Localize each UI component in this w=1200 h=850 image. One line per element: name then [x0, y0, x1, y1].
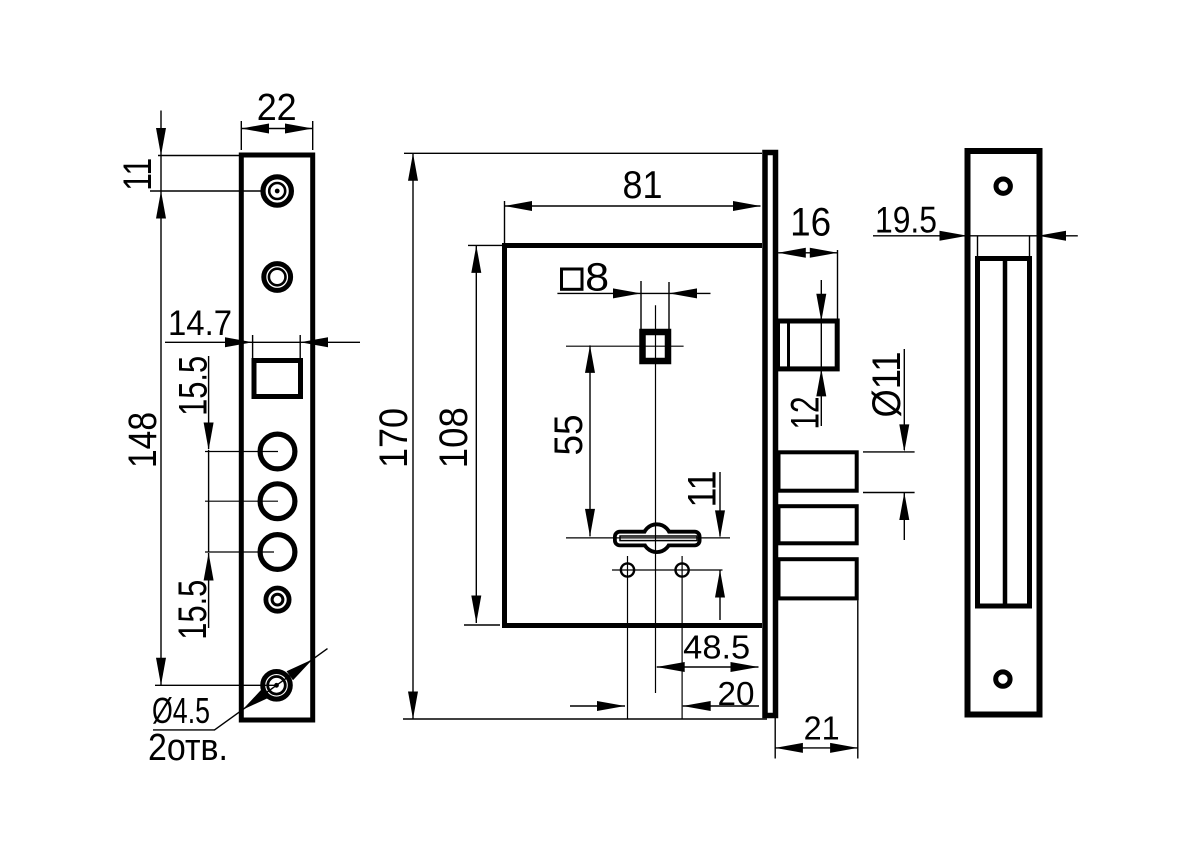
dim 15.5 lower arrow — [204, 553, 214, 581]
dim 21 extensions — [775, 600, 858, 758]
dim 81 line — [505, 205, 761, 207]
latch bolt top — [778, 321, 838, 369]
square hole — [254, 361, 301, 397]
dim 15.5 lower line — [208, 450, 210, 628]
dim 20 line — [570, 705, 759, 707]
dim 19.5 line — [873, 235, 1078, 237]
dim 22 arrows — [241, 124, 312, 134]
latch bolt collar — [787, 321, 790, 369]
dim 11 arrow top — [156, 128, 166, 156]
dim 108 arrows — [471, 245, 481, 623]
svg-text:19.5: 19.5 — [875, 199, 937, 240]
bolt circle 1 — [260, 434, 295, 469]
dim 11 mid arrows — [715, 510, 725, 597]
screw hole top (countersunk) — [263, 177, 291, 205]
dim 15.5 upper line — [208, 356, 210, 449]
dim 108 extensions — [464, 245, 502, 625]
vertical centerline through square and keyhole — [655, 305, 657, 693]
dim Ø11 line — [903, 349, 905, 540]
svg-text:22: 22 — [257, 87, 297, 129]
svg-text:14.7: 14.7 — [168, 304, 232, 343]
dim 14.7 line — [165, 341, 360, 343]
dim 21 line — [775, 747, 858, 749]
svg-text:Ø11: Ø11 — [865, 352, 909, 418]
dim 16 arrows — [778, 248, 837, 258]
case outline — [505, 246, 763, 626]
svg-text:108: 108 — [432, 407, 476, 468]
dim 11 mid line — [719, 472, 721, 620]
dim 48.5 arrows — [657, 662, 759, 672]
dim 22 line — [241, 128, 312, 130]
strike slot divider — [1003, 259, 1008, 607]
dimensions of middle view — [372, 153, 915, 758]
dim 55 line — [589, 345, 591, 536]
dim 16 extension — [837, 250, 839, 320]
dim 108 line — [475, 245, 477, 623]
dim 12 line — [820, 280, 822, 426]
dim 170 bottom extension — [403, 718, 767, 720]
keyhole outer — [617, 526, 698, 550]
dim 15.5 upper arrow — [204, 423, 214, 451]
dim 170 top extension — [404, 152, 762, 154]
dim 48.5 line — [657, 666, 759, 668]
screw hole bottom (countersunk) — [263, 672, 291, 700]
spindle square hole — [643, 332, 669, 361]
dim 170 line — [412, 153, 414, 719]
svg-text:148: 148 — [121, 412, 165, 468]
svg-text:20: 20 — [718, 675, 755, 712]
dim 14.7 extensions — [253, 335, 301, 358]
dim 22 extension lines — [241, 121, 312, 150]
square symbol of □8 — [562, 269, 583, 289]
strike plate outline — [968, 151, 1040, 715]
dim 81 left extension — [504, 201, 506, 243]
svg-text:48.5: 48.5 — [683, 629, 750, 666]
rivet vertical centerline right — [681, 556, 683, 719]
dim 12 arrows — [816, 294, 826, 397]
svg-text:12: 12 — [784, 397, 828, 430]
dim 55 arrows — [585, 345, 595, 536]
keyhole inner slot — [620, 536, 697, 541]
svg-text:15.5: 15.5 — [172, 356, 216, 416]
strike slot outline — [978, 259, 1030, 607]
dim 14.7 arrows — [225, 337, 328, 347]
dim 19.5 arrows — [940, 231, 1067, 241]
deadbolt C — [779, 559, 857, 598]
horizontal centerline square — [566, 345, 684, 347]
bolt circle 2 — [260, 484, 295, 519]
dim Ø11 arrows — [899, 424, 909, 520]
dim 81 arrows — [505, 201, 761, 211]
dimensions of right view — [873, 199, 1078, 258]
dim Ø11 extensions — [863, 452, 915, 493]
centerline circle 3 — [205, 551, 274, 553]
deadbolt B — [779, 506, 857, 543]
svg-text:81: 81 — [623, 164, 663, 207]
svg-text:55: 55 — [547, 415, 591, 456]
rivet circle left — [621, 563, 634, 576]
dim 21 arrows — [775, 743, 858, 753]
strike screw hole bottom — [996, 672, 1010, 686]
dim 148 bottom arrow — [156, 658, 166, 686]
strike screw hole top — [996, 179, 1010, 193]
dim 170 arrows — [408, 153, 418, 719]
centerline circle 1 — [205, 451, 278, 453]
dim 11 arrow bottom / 148 top arrow — [156, 191, 166, 219]
leader arrow upper — [287, 659, 313, 680]
dim 19.5 slot extensions — [978, 236, 1030, 258]
svg-text:15.5: 15.5 — [171, 580, 215, 640]
rivet circle right — [676, 563, 689, 576]
dimensions of left view — [116, 87, 360, 769]
small hole — [266, 588, 289, 611]
dim 8 extensions — [641, 281, 669, 329]
deadbolt A — [779, 452, 857, 490]
dim 11 extension lines — [150, 156, 262, 192]
leader Ø4.5 diagonal — [215, 649, 328, 730]
dim 11/148 line — [160, 111, 162, 686]
svg-text:11: 11 — [681, 471, 725, 508]
dim 16 line — [778, 252, 837, 254]
svg-text:11: 11 — [116, 158, 160, 191]
rivet vertical centerline left — [627, 556, 629, 719]
dim 8 arrows — [613, 288, 697, 298]
dim 20 arrows — [597, 701, 711, 711]
rivet horizontal centerline — [612, 569, 723, 571]
leader arrow lower — [243, 689, 269, 710]
leader horizontal — [153, 729, 215, 731]
svg-text:2отв.: 2отв. — [148, 727, 228, 769]
dim 148 bottom extension — [155, 684, 277, 686]
faceplate strip edge-on — [765, 153, 776, 716]
svg-text:21: 21 — [804, 709, 840, 746]
faceplate outline — [241, 155, 312, 720]
svg-text:Ø4.5: Ø4.5 — [152, 690, 210, 731]
dim 8 line — [557, 292, 710, 294]
keyhole horizontal centerline — [566, 537, 730, 539]
screw hole second — [264, 264, 291, 291]
svg-text:170: 170 — [372, 408, 416, 468]
centerline circle 2 — [205, 500, 278, 502]
svg-text:16: 16 — [790, 200, 831, 244]
bolt circle 3 — [260, 535, 295, 570]
